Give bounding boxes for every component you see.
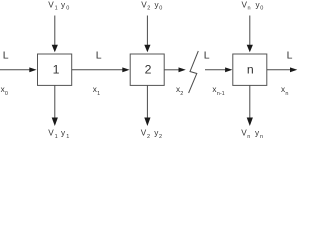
svg-text:1: 1: [66, 134, 69, 140]
svg-text:n: n: [260, 134, 263, 140]
svg-text:L: L: [204, 50, 210, 62]
svg-text:n: n: [285, 91, 288, 97]
svg-text:0: 0: [5, 91, 8, 97]
svg-text:0: 0: [66, 6, 69, 12]
svg-text:1: 1: [55, 6, 58, 12]
svg-text:n: n: [248, 6, 251, 12]
svg-text:2: 2: [147, 134, 150, 140]
svg-text:0: 0: [260, 6, 263, 12]
svg-text:n-1: n-1: [217, 91, 225, 97]
svg-text:1: 1: [97, 91, 100, 97]
svg-text:V: V: [48, 129, 54, 138]
svg-text:L: L: [287, 50, 293, 62]
svg-text:2: 2: [145, 63, 152, 77]
svg-text:1: 1: [53, 63, 60, 77]
svg-text:n: n: [247, 134, 250, 140]
svg-text:2: 2: [159, 134, 162, 140]
svg-text:V: V: [241, 129, 247, 138]
svg-text:2: 2: [147, 6, 150, 12]
svg-text:L: L: [3, 50, 9, 62]
svg-text:n: n: [247, 63, 254, 77]
svg-text:0: 0: [159, 6, 162, 12]
svg-text:2: 2: [180, 91, 183, 97]
svg-text:V: V: [48, 0, 54, 9]
svg-text:L: L: [96, 50, 102, 62]
svg-text:1: 1: [55, 134, 58, 140]
svg-text:V: V: [141, 129, 147, 138]
